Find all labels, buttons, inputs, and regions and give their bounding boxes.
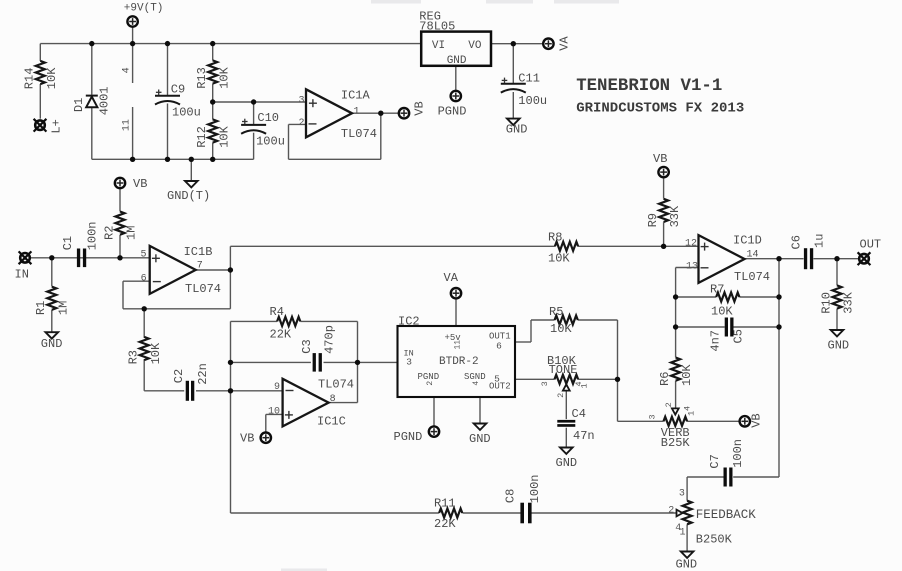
svg-text:10K: 10K	[217, 66, 231, 88]
svg-text:C7: C7	[708, 454, 722, 468]
svg-text:4n7: 4n7	[708, 330, 722, 352]
svg-text:GND: GND	[828, 338, 850, 352]
svg-text:100n: 100n	[731, 439, 745, 468]
svg-text:PGND: PGND	[438, 105, 467, 119]
svg-text:10K: 10K	[217, 125, 231, 147]
svg-text:R12: R12	[195, 126, 209, 148]
svg-text:R14: R14	[23, 68, 37, 90]
svg-text:2: 2	[298, 118, 304, 129]
svg-text:B250K: B250K	[696, 533, 733, 547]
svg-text:14: 14	[746, 249, 758, 260]
svg-text:GND(T): GND(T)	[167, 189, 210, 203]
svg-text:C9: C9	[171, 83, 185, 97]
svg-text:R11: R11	[434, 496, 456, 510]
svg-text:1: 1	[353, 107, 359, 118]
svg-text:2: 2	[664, 402, 674, 407]
svg-text:12: 12	[685, 238, 697, 249]
svg-text:VO: VO	[468, 40, 482, 52]
svg-text:100u: 100u	[518, 94, 547, 108]
svg-text:10K: 10K	[149, 342, 163, 364]
svg-text:R13: R13	[195, 67, 209, 89]
svg-text:D1: D1	[72, 98, 86, 112]
svg-text:R3: R3	[127, 350, 141, 364]
svg-text:TL074: TL074	[734, 270, 770, 284]
svg-text:C8: C8	[503, 489, 517, 503]
svg-text:C11: C11	[518, 72, 540, 86]
svg-text:VB: VB	[412, 101, 426, 115]
svg-text:C5: C5	[731, 329, 745, 343]
svg-text:IN: IN	[15, 267, 29, 281]
svg-text:C6: C6	[790, 235, 804, 249]
svg-text:11: 11	[453, 340, 462, 350]
svg-text:IC1B: IC1B	[184, 245, 213, 259]
svg-text:100n: 100n	[86, 221, 100, 250]
svg-text:78L05: 78L05	[419, 20, 455, 34]
svg-text:6: 6	[141, 273, 147, 284]
svg-text:BTDR-2: BTDR-2	[439, 356, 479, 368]
svg-text:1M: 1M	[56, 301, 70, 315]
svg-text:B25K: B25K	[661, 436, 691, 450]
svg-text:C2: C2	[172, 369, 186, 383]
svg-text:2: 2	[556, 393, 566, 398]
svg-text:C3: C3	[300, 339, 314, 353]
svg-text:3: 3	[540, 381, 550, 386]
svg-text:TENEBRION V1-1: TENEBRION V1-1	[576, 77, 722, 96]
svg-text:IC2: IC2	[398, 315, 420, 329]
svg-text:IC1C: IC1C	[317, 414, 346, 428]
svg-text:R8: R8	[548, 230, 562, 244]
svg-text:C1: C1	[61, 236, 75, 250]
svg-text:1: 1	[679, 528, 685, 539]
svg-text:10K: 10K	[548, 251, 570, 265]
svg-text:R6: R6	[658, 372, 672, 386]
svg-text:VB: VB	[653, 152, 667, 166]
svg-text:TL074: TL074	[318, 377, 354, 391]
svg-text:10: 10	[268, 407, 280, 418]
svg-text:1: 1	[580, 383, 590, 388]
svg-text:3: 3	[679, 488, 685, 499]
svg-text:VI: VI	[432, 40, 445, 52]
svg-text:VB: VB	[749, 413, 763, 427]
svg-text:TL074: TL074	[185, 282, 221, 296]
svg-text:IC1A: IC1A	[341, 89, 371, 103]
svg-text:GND: GND	[469, 432, 491, 446]
svg-text:100u: 100u	[172, 106, 201, 120]
svg-text:OUT2: OUT2	[489, 381, 511, 391]
svg-text:GND: GND	[447, 55, 467, 67]
svg-text:10K: 10K	[711, 304, 733, 318]
svg-text:33K: 33K	[668, 205, 682, 227]
svg-text:22n: 22n	[196, 363, 210, 385]
svg-text:VB: VB	[240, 432, 254, 446]
svg-text:R9: R9	[646, 213, 660, 227]
svg-text:13: 13	[686, 261, 698, 272]
svg-text:IC1D: IC1D	[733, 233, 762, 247]
svg-text:10K: 10K	[550, 322, 572, 336]
svg-text:VA: VA	[558, 36, 572, 51]
svg-text:SGND: SGND	[464, 372, 486, 382]
svg-text:100u: 100u	[256, 135, 285, 149]
svg-text:VA: VA	[444, 271, 459, 285]
svg-text:2: 2	[426, 381, 435, 386]
svg-text:PGND: PGND	[394, 430, 423, 444]
svg-text:47n: 47n	[573, 429, 595, 443]
svg-text:4: 4	[472, 381, 481, 386]
svg-text:3: 3	[406, 356, 412, 367]
svg-text:VB: VB	[133, 177, 147, 191]
svg-text:470p: 470p	[323, 325, 337, 354]
svg-text:PGND: PGND	[418, 372, 440, 382]
svg-text:R5: R5	[549, 305, 563, 319]
svg-text:GRINDCUSTOMS FX 2013: GRINDCUSTOMS FX 2013	[576, 101, 744, 117]
svg-text:7: 7	[197, 261, 203, 272]
svg-text:6: 6	[496, 340, 502, 351]
svg-text:2: 2	[668, 505, 674, 516]
svg-text:C4: C4	[572, 407, 586, 421]
svg-text:OUT: OUT	[860, 237, 882, 251]
svg-text:1M: 1M	[125, 226, 139, 240]
svg-text:R1: R1	[34, 301, 48, 315]
svg-text:L+: L+	[50, 119, 64, 133]
svg-text:22K: 22K	[270, 328, 292, 342]
svg-text:4: 4	[121, 67, 132, 73]
svg-text:5: 5	[140, 250, 146, 261]
svg-text:22K: 22K	[434, 517, 456, 531]
svg-text:R10: R10	[819, 292, 833, 314]
svg-text:10K: 10K	[680, 364, 694, 386]
svg-text:TL074: TL074	[341, 127, 377, 141]
svg-text:3: 3	[298, 95, 304, 106]
svg-text:GND: GND	[676, 557, 698, 571]
svg-text:GND: GND	[41, 337, 63, 351]
svg-text:8: 8	[330, 394, 336, 405]
svg-text:33K: 33K	[842, 291, 856, 313]
svg-text:R4: R4	[270, 305, 284, 319]
svg-text:+9V(T): +9V(T)	[124, 3, 164, 15]
svg-text:1u: 1u	[813, 234, 827, 248]
svg-text:FEEDBACK: FEEDBACK	[696, 508, 757, 522]
svg-text:GND: GND	[556, 456, 578, 470]
svg-text:100n: 100n	[528, 474, 542, 503]
svg-text:C10: C10	[257, 111, 279, 125]
svg-text:3: 3	[648, 414, 658, 419]
svg-text:R7: R7	[710, 283, 724, 297]
svg-text:10K: 10K	[45, 67, 59, 89]
svg-text:TONE: TONE	[549, 363, 578, 377]
svg-text:R2: R2	[102, 226, 116, 240]
svg-text:4: 4	[683, 406, 693, 411]
svg-text:4001: 4001	[98, 86, 112, 115]
svg-text:11: 11	[121, 119, 132, 131]
svg-text:GND: GND	[506, 123, 528, 137]
svg-text:1: 1	[687, 411, 697, 416]
svg-text:9: 9	[274, 382, 280, 393]
